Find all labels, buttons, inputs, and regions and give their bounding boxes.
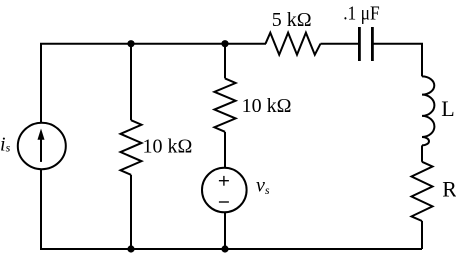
svg-text:is: is [0,134,11,156]
svg-text:L: L [441,96,454,121]
node B junction dot top [221,40,228,47]
voltage source V1 circle [202,168,247,213]
current source arrow [38,129,45,162]
current source I1 circle [18,123,66,169]
wire left bottom (current source to bottom rail) [41,169,422,249]
wire voltage source to bottom rail [224,212,226,249]
capacitor C1 plates [359,27,372,61]
wire resistor R2 to voltage source [224,132,226,168]
wire top right (capacitor to corner, down to inductor) [372,44,422,77]
resistor R2 10k middle zigzag [214,78,235,131]
wire node B down to resistor R2 [224,43,226,79]
svg-text:R: R [442,176,456,201]
voltage source plus sign [219,176,229,202]
node C junction dot bottom [127,245,134,252]
resistor R3 5k top zigzag [266,33,321,55]
wire top middle (resistor to capacitor) [321,43,360,45]
wire top-left horizontal [41,44,266,123]
wire node A down to resistor R1 [130,43,132,121]
resistor R1 10k left zigzag [121,120,142,175]
node D junction dot bottom [221,245,228,252]
svg-text:vs: vs [256,175,270,197]
svg-text:.1 μF: .1 μF [343,3,380,25]
inductor L coil [422,76,434,145]
svg-text:10 kΩ: 10 kΩ [143,136,193,158]
wire inductor to resistor R [421,145,423,161]
voltage source minus sign [219,201,229,203]
resistor R right zigzag [412,162,433,221]
node A junction dot top [127,40,134,47]
wire resistor R to bottom rail [421,221,423,249]
wire resistor R1 to bottom rail [130,175,132,249]
svg-text:10 kΩ: 10 kΩ [242,95,292,117]
svg-text:5 kΩ: 5 kΩ [272,9,312,31]
